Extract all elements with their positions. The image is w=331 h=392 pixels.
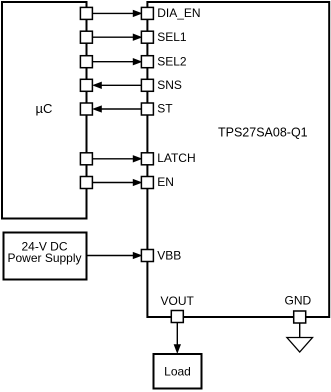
arrowhead into SEL2 [133,59,141,65]
svg-text:VBB: VBB [157,248,181,262]
arrowhead into µC from ST [93,106,101,112]
svg-text:GND: GND [285,294,312,308]
arrowhead into LATCH [133,156,141,162]
wire SNS [99,84,142,86]
terminal ST [141,103,153,115]
terminal GND [294,311,306,323]
terminal µC pin row4 [80,79,92,91]
wire LATCH [92,158,136,160]
ground symbol [287,338,313,353]
power supply box 24-V DC [4,233,87,280]
svg-text:Power Supply: Power Supply [7,251,81,265]
svg-text:SEL2: SEL2 [157,54,187,68]
terminal VOUT [171,311,183,323]
terminal µC pin row7 [80,177,92,189]
microcontroller box µC [2,2,87,219]
svg-text:µC: µC [36,101,53,116]
wire SEL1 [92,36,136,38]
terminal µC pin row1 [80,7,92,19]
terminal SNS [141,79,153,91]
svg-text:DIA_EN: DIA_EN [157,6,200,20]
terminal DIA_EN [141,7,153,19]
terminal µC pin row5 [80,103,92,115]
wire EN [92,182,136,184]
terminal EN [141,177,153,189]
svg-text:TPS27SA08-Q1: TPS27SA08-Q1 [218,126,308,140]
wire GND stem [299,323,301,338]
wire SEL2 [92,61,136,63]
arrowhead into Load [174,345,180,353]
terminal VBB [141,250,153,262]
load box [154,354,202,389]
svg-text:Load: Load [164,365,191,379]
terminal µC pin row3 [80,56,92,68]
terminal µC pin row2 [80,31,92,43]
svg-text:SNS: SNS [157,78,182,92]
wire DIA_EN [92,12,136,14]
terminal SEL1 [141,31,153,43]
wire ST [99,108,142,110]
terminal µC pin row6 [80,153,92,165]
IC box U1 TPS27SA08-Q1 [147,2,329,317]
wire VBB supply [87,255,137,257]
arrowhead into VBB [133,252,141,258]
svg-text:EN: EN [157,175,174,189]
arrowhead into SEL1 [133,34,141,40]
svg-text:SEL1: SEL1 [157,30,187,44]
svg-text:VOUT: VOUT [161,294,195,308]
arrowhead into EN [133,179,141,185]
svg-text:LATCH: LATCH [157,151,195,165]
svg-text:ST: ST [157,102,173,116]
arrowhead into µC from SNS [93,82,101,88]
wire VOUT to Load [176,323,178,348]
terminal SEL2 [141,56,153,68]
arrowhead into DIA_EN [133,10,141,16]
terminal LATCH [141,153,153,165]
